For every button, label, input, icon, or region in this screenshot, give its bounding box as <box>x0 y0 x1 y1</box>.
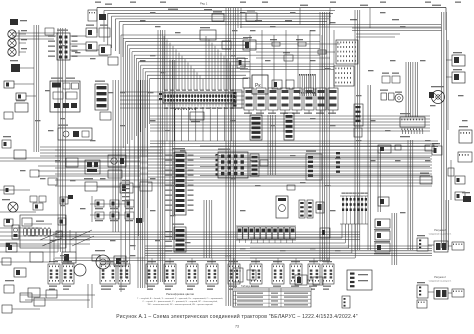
svg-text:Соединение на рисунке 1: Соединение на рисунке 1 <box>429 280 452 282</box>
svg-text:Г – голубой, В – белый, З – зе: Г – голубой, В – белый, З – зеленый, К –… <box>137 297 223 300</box>
svg-text:73: 73 <box>235 325 239 329</box>
svg-text:Расшифровка цветов: Расшифровка цветов <box>166 292 194 296</box>
svg-text:Рисунок А.1 – Схема электричес: Рисунок А.1 – Схема электрическая соедин… <box>116 313 358 320</box>
svg-text:Рисунок 2: Рисунок 2 <box>434 229 446 232</box>
svg-text:С – серый, Ф – фиолетовый, Р –: С – серый, Ф – фиолетовый, Р – розовый, … <box>142 300 218 303</box>
svg-text:Рисунок 2: Рисунок 2 <box>434 276 446 279</box>
svg-text:Соединение на рисунке 1: Соединение на рисунке 1 <box>429 233 452 235</box>
svg-text:Таблица 1: Таблица 1 <box>241 285 253 288</box>
svg-text:Ряд 1: Ряд 1 <box>200 2 208 6</box>
svg-text:ЗЖ – зелено-желтый, ЗК – зелен: ЗЖ – зелено-желтый, ЗК – зелено-красный,… <box>147 303 213 306</box>
